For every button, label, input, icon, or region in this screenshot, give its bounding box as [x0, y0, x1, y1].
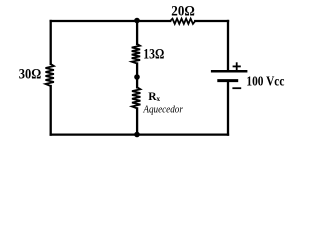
svg-text:20Ω: 20Ω [171, 3, 195, 19]
svg-text:x: x [157, 95, 161, 103]
svg-text:13Ω: 13Ω [143, 47, 164, 63]
svg-text:Aquecedor: Aquecedor [143, 104, 184, 115]
svg-text:100 Vcc: 100 Vcc [246, 73, 284, 88]
svg-text:30Ω: 30Ω [19, 67, 42, 83]
